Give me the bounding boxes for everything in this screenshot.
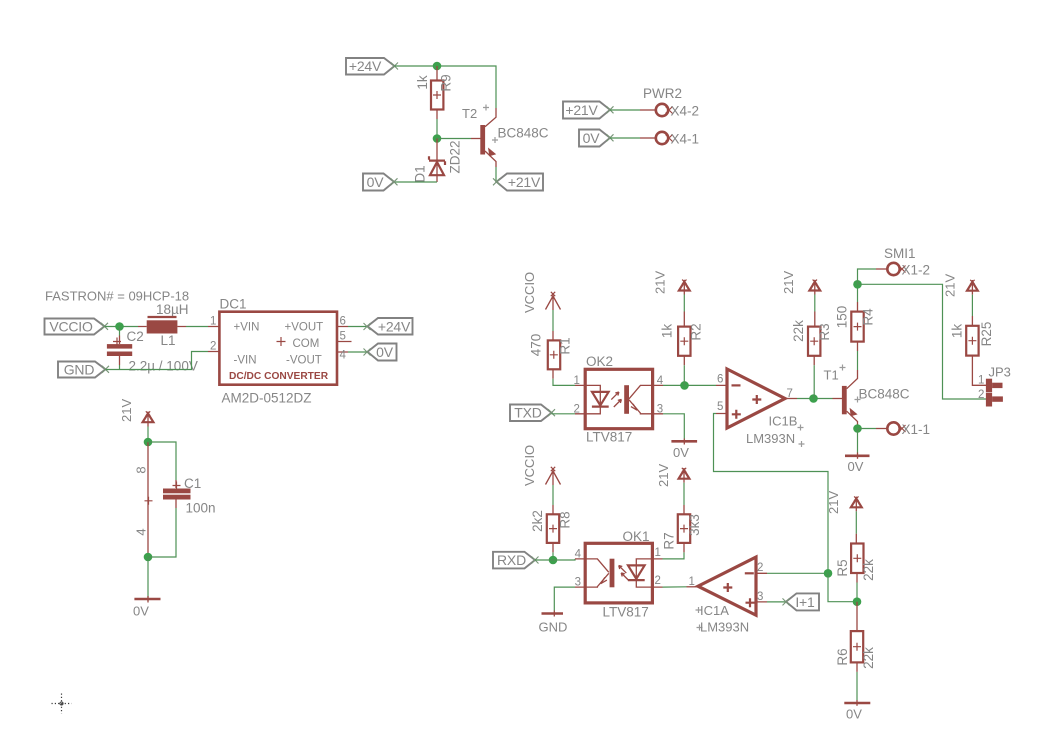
net label +24V (top left) (346, 58, 398, 75)
resistor R3 (791, 312, 832, 366)
svg-text:TXD: TXD (514, 405, 541, 421)
junction dot divider mid node (853, 597, 862, 606)
zener diode D1 ZD22 (413, 139, 463, 183)
svg-text:2: 2 (210, 341, 216, 353)
wire L1 to DC1 pin1 (186, 326, 208, 328)
svg-text:21V: 21V (826, 491, 841, 514)
junction dot RXD node (549, 556, 558, 565)
svg-text:21V: 21V (653, 271, 668, 294)
wire T1 emitter to X1-1 node (857, 425, 859, 429)
svg-text:6: 6 (717, 374, 723, 386)
wire T1 collector to R4 (857, 351, 859, 370)
svg-text:1: 1 (574, 375, 580, 387)
svg-text:R1: R1 (558, 337, 573, 354)
net label 0V (top) (363, 174, 398, 191)
net label RXD (493, 552, 539, 569)
svg-text:GND: GND (64, 362, 95, 378)
svg-text:DC/DC CONVERTER: DC/DC CONVERTER (229, 371, 329, 382)
svg-text:+21V: +21V (565, 102, 598, 118)
svg-text:1: 1 (689, 576, 695, 588)
svg-text:4: 4 (657, 375, 664, 387)
svg-text:2k2: 2k2 (530, 510, 545, 532)
svg-text:JP3: JP3 (989, 365, 1011, 380)
wire 21V to node (147, 427, 149, 443)
OK1 phototransistor (610, 559, 615, 588)
wire R9 to base node (436, 119, 438, 139)
svg-text:2: 2 (574, 403, 580, 415)
junction dot base node (433, 134, 442, 143)
svg-text:1k: 1k (950, 324, 965, 339)
supply symbol 21V (R25) (943, 274, 978, 297)
svg-text:3: 3 (757, 591, 763, 603)
comparator IC1B LM393N (716, 369, 805, 447)
svg-text:2: 2 (757, 562, 763, 574)
wire C2 to GND net (119, 365, 121, 370)
wire DC1 pin6 to +24V (348, 326, 367, 328)
svg-text:1: 1 (210, 316, 216, 328)
svg-text:X4-2: X4-2 (671, 104, 700, 119)
supply symbol 21V (R7) (656, 464, 689, 487)
svg-text:1: 1 (978, 374, 984, 386)
resistor R5 (835, 534, 876, 583)
svg-text:GND: GND (539, 620, 568, 635)
svg-text:IC1A: IC1A (700, 603, 729, 618)
net label 0V (PWR2) (579, 130, 614, 147)
net label GND (58, 362, 109, 378)
wire OK2 pin3 to 0V (663, 414, 684, 439)
OK2 light arrows (611, 392, 619, 400)
svg-text:VCCIO: VCCIO (522, 272, 537, 313)
IC1 power pins 8 / 4 (134, 442, 153, 557)
svg-text:0V: 0V (673, 445, 689, 460)
svg-text:0V: 0V (846, 707, 862, 722)
svg-text:3k3: 3k3 (687, 514, 702, 536)
wire OK2 pin4 to node (663, 384, 716, 386)
ground symbol GND (539, 611, 568, 635)
wire OK1 pin3 to GND (554, 587, 575, 610)
svg-text:7: 7 (787, 388, 793, 400)
capacitor C2 (107, 327, 198, 374)
junction dot IC supply top (144, 438, 153, 447)
wire R4 top to SMI1 node (857, 284, 859, 302)
svg-text:R7: R7 (662, 532, 677, 549)
capacitor C1 (148, 442, 216, 557)
svg-text:3: 3 (575, 577, 581, 589)
net label I+1 (783, 593, 820, 610)
ground symbol 0V (R6) (844, 700, 870, 722)
svg-text:21V: 21V (656, 464, 671, 487)
svg-text:R3: R3 (817, 323, 832, 340)
svg-text:4: 4 (340, 350, 347, 362)
wire GND to DC1 pin2 (106, 352, 209, 370)
svg-text:R8: R8 (558, 511, 573, 528)
svg-text:-VIN: -VIN (234, 355, 257, 367)
junction dot IC supply bottom (144, 553, 153, 562)
wire node to X1-2 (858, 269, 877, 284)
svg-text:8: 8 (134, 466, 149, 473)
svg-text:X1-2: X1-2 (902, 263, 931, 278)
sheet origin cross (52, 694, 72, 714)
pad X1-2 (876, 263, 930, 278)
svg-text:21V: 21V (943, 274, 958, 297)
svg-text:+21V: +21V (508, 174, 541, 190)
svg-text:SMI1: SMI1 (884, 246, 916, 261)
pad X4-1 (640, 132, 699, 147)
supply symbol VCCIO (R8) (522, 445, 561, 486)
svg-text:4: 4 (134, 528, 149, 535)
wire VCCIO to R1 (552, 310, 554, 331)
wire R3 to IC1B out node (813, 365, 816, 398)
net label +21V (emitter) (493, 174, 543, 191)
wire OK1 pin2 to IC1A out (663, 586, 687, 588)
svg-text:2: 2 (655, 575, 661, 587)
supply symbol 21V (R5) (826, 491, 862, 514)
svg-text:X1-1: X1-1 (902, 422, 931, 437)
junction dot divider top node (824, 569, 833, 578)
svg-text:AM2D-0512DZ: AM2D-0512DZ (222, 391, 312, 406)
svg-text:470: 470 (529, 334, 544, 357)
junction dot SMI1 node (853, 280, 862, 289)
svg-text:X4-1: X4-1 (671, 132, 700, 147)
junction dot IC1B out (809, 394, 818, 403)
optocoupler OK2 LTV817 (574, 354, 664, 445)
wire +24V rail (395, 66, 497, 108)
svg-text:VCCIO: VCCIO (522, 445, 537, 486)
svg-text:4: 4 (575, 548, 582, 560)
wire SMI1 node to JP3 pin2 (858, 284, 987, 399)
svg-text:LM393N: LM393N (700, 620, 749, 635)
svg-text:-VOUT: -VOUT (286, 355, 322, 367)
svg-text:21V: 21V (781, 271, 796, 294)
svg-text:C2: C2 (127, 329, 144, 344)
wire R1 to OK2 pin1 (553, 379, 575, 386)
svg-text:+24V: +24V (378, 318, 411, 334)
svg-text:RXD: RXD (497, 552, 526, 568)
wire node down to mid node (828, 573, 853, 601)
wire IC1B out to T1 base (797, 398, 833, 400)
svg-text:21V: 21V (119, 399, 134, 422)
svg-text:0V: 0V (133, 604, 149, 619)
svg-text:2.2µ / 100V: 2.2µ / 100V (129, 359, 198, 374)
svg-text:R4: R4 (861, 308, 876, 326)
wire base node to T2 base (437, 138, 471, 140)
optocoupler OK1 LTV817 (575, 529, 663, 620)
wire R6 to 0V (856, 672, 858, 700)
resistor R4 (835, 302, 876, 351)
transistor T2 BC848C (462, 105, 549, 168)
wire +21V to X4-2 (610, 109, 640, 111)
svg-text:18µH: 18µH (156, 302, 189, 317)
wire X1-1 node to 0V (857, 429, 859, 453)
resistor R1 (529, 331, 573, 379)
svg-text:R25: R25 (979, 322, 994, 347)
svg-text:100n: 100n (186, 501, 216, 516)
svg-text:T1: T1 (824, 368, 839, 383)
junction dot VCCIO node (115, 322, 124, 331)
wire VCCIO to R8 (552, 485, 554, 505)
svg-text:5: 5 (340, 331, 346, 343)
wire R5 to mid node (856, 583, 858, 602)
junction dot node R9 top (433, 62, 442, 71)
supply symbol 21V (C1) (119, 399, 153, 427)
svg-text:0V: 0V (583, 130, 601, 146)
junction dot X1-1 node (853, 424, 862, 433)
wire 21V to R25 (971, 295, 973, 316)
net label VCCIO (45, 319, 109, 335)
net label TXD (510, 405, 555, 422)
resistor R9 (415, 66, 454, 119)
svg-text:L1: L1 (161, 333, 176, 348)
supply symbol VCCIO (R1) (522, 272, 561, 313)
net label +21V (PWR2) (563, 102, 614, 119)
pin header JP3 (978, 365, 1011, 407)
resistor R2 (659, 312, 703, 366)
svg-text:T2: T2 (462, 106, 477, 121)
wire IC1A pin3 to I+1 (767, 601, 786, 603)
net label 0V (DC1 out) (364, 344, 397, 361)
svg-text:LTV817: LTV817 (603, 605, 649, 620)
wire T2 emitter to +21V (495, 167, 497, 182)
svg-text:R2: R2 (689, 323, 704, 340)
svg-text:+VOUT: +VOUT (285, 322, 324, 334)
wire DC1 pin4 to 0V (348, 351, 367, 353)
svg-text:0V: 0V (848, 459, 864, 474)
svg-text:+VIN: +VIN (234, 322, 260, 334)
comparator IC1A LM393N (687, 557, 768, 634)
wire R7 to OK1 pin1 (663, 552, 685, 559)
supply symbol 21V (R2) (653, 271, 690, 295)
svg-text:R5: R5 (835, 559, 850, 576)
svg-text:5: 5 (717, 401, 723, 413)
wire D1 anode to 0V (395, 181, 438, 183)
wire 21V to R7 (683, 483, 685, 505)
wire 0V to X4-1 (610, 137, 640, 139)
wire 21V to R3 (814, 295, 816, 312)
svg-text:2: 2 (978, 389, 984, 401)
svg-text:VCCIO: VCCIO (49, 319, 93, 335)
resistor R7 (662, 505, 703, 552)
svg-text:LTV817: LTV817 (586, 430, 632, 445)
wire VCCIO to L1 (105, 326, 139, 328)
svg-text:R9: R9 (439, 74, 454, 91)
svg-text:BC848C: BC848C (498, 126, 549, 141)
svg-text:1k: 1k (415, 75, 430, 90)
wire R8 to RXD node (552, 552, 554, 560)
OK1 internal LED (636, 559, 652, 587)
resistor R6 (835, 602, 876, 672)
svg-text:LM393N: LM393N (746, 431, 795, 446)
svg-text:0V: 0V (367, 174, 385, 190)
svg-text:R6: R6 (835, 648, 850, 665)
ground symbol 0V (OK2) (671, 439, 697, 461)
transistor T1 BC848C (824, 365, 910, 425)
pad X1-1 (858, 422, 931, 437)
pad X4-2 (640, 104, 699, 119)
svg-text:+24V: +24V (349, 58, 382, 74)
ground symbol 0V (T1) (845, 453, 870, 475)
junction dot R2 bottom node (680, 381, 689, 390)
wire 21V to R5 (855, 511, 857, 534)
svg-text:COM: COM (293, 338, 320, 350)
wire RXD to OK1 pin4 (535, 559, 575, 560)
supply symbol 21V (R3) (781, 271, 820, 295)
wire R2 to node (683, 365, 685, 385)
ground symbol 0V (C1) (133, 596, 161, 619)
svg-text:1k: 1k (659, 324, 674, 339)
OK1 light arrows (619, 566, 627, 574)
svg-text:BC848C: BC848C (859, 387, 910, 402)
svg-text:PWR2: PWR2 (643, 86, 682, 101)
inductor L1 (138, 317, 186, 348)
svg-text:C1: C1 (184, 476, 201, 491)
wire to 0V ground (147, 557, 149, 601)
svg-text:DC1: DC1 (220, 297, 247, 312)
svg-text:22k: 22k (791, 320, 806, 342)
svg-text:150: 150 (835, 306, 850, 329)
wire TXD to OK2 pin2 (552, 413, 576, 415)
DC/DC converter DC1 AM2D-0512DZ (208, 297, 352, 406)
svg-text:22k: 22k (861, 559, 876, 581)
svg-text:1: 1 (655, 547, 661, 559)
OK2 internal LED (585, 385, 600, 413)
svg-text:0V: 0V (376, 344, 394, 360)
net label +24V (DC1 out) (364, 318, 413, 335)
wire R25 to JP3 pin1 (972, 365, 986, 385)
svg-text:22k: 22k (861, 647, 876, 669)
wire 21V to R2 (683, 295, 685, 312)
svg-text:OK2: OK2 (586, 354, 613, 369)
svg-text:IC1B: IC1B (769, 414, 798, 429)
svg-text:I+1: I+1 (795, 594, 815, 610)
wire IC1A pin2 to divider node (767, 572, 828, 574)
svg-text:3: 3 (657, 403, 663, 415)
OK2 phototransistor (624, 385, 629, 414)
svg-text:D1: D1 (413, 165, 428, 182)
resistor R25 (950, 316, 995, 365)
svg-text:ZD22: ZD22 (448, 140, 463, 173)
resistor R8 (530, 505, 573, 552)
svg-text:6: 6 (340, 316, 346, 328)
wire IC1B pin5 to divider node (714, 414, 829, 574)
